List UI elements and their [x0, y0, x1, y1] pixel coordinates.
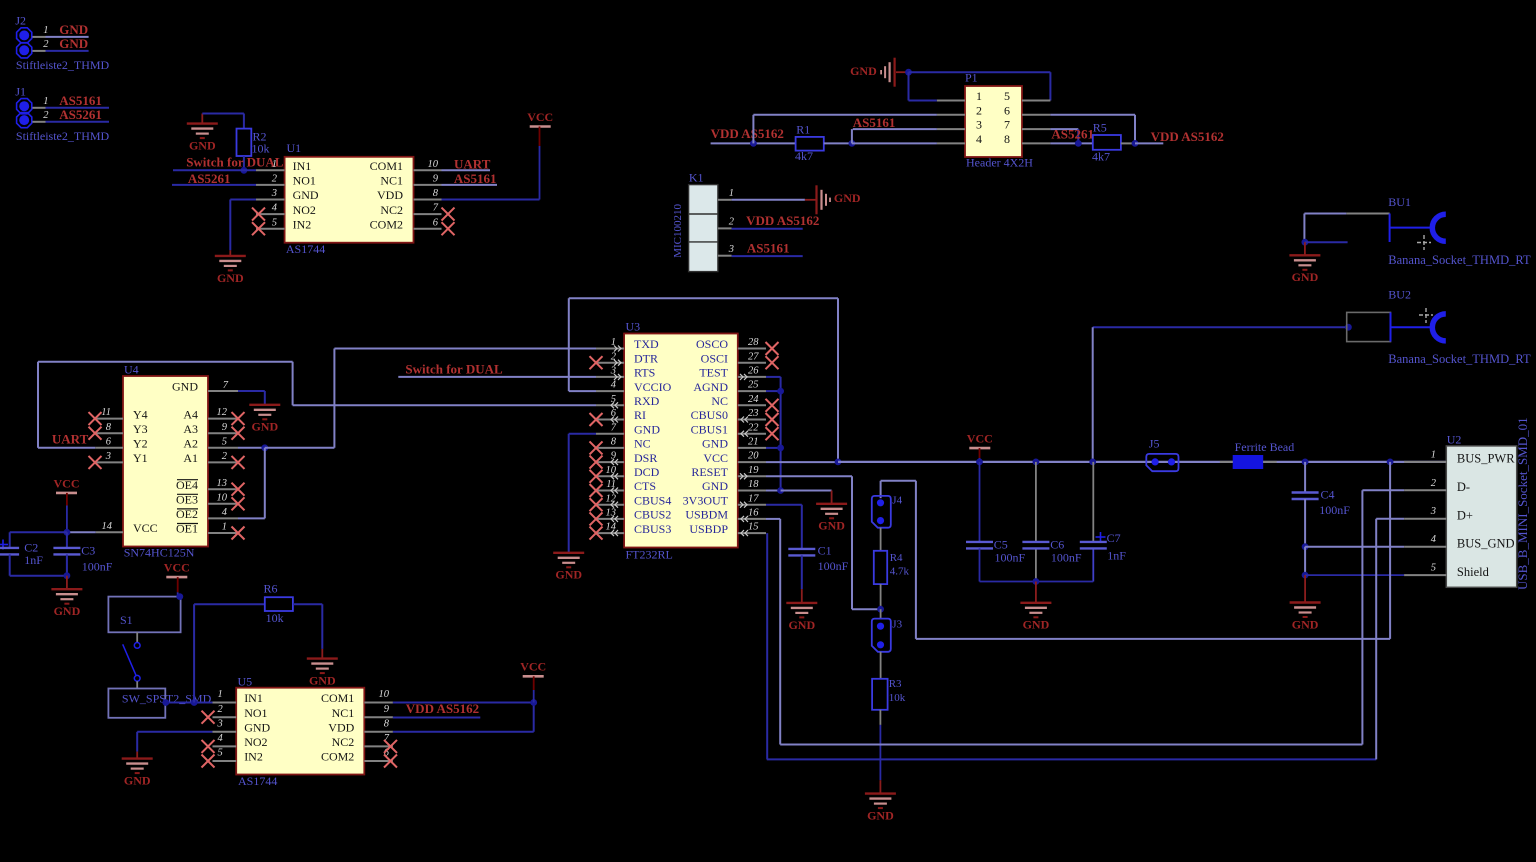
svg-text:4: 4	[272, 203, 278, 214]
wire A2 to OE2	[264, 448, 266, 519]
svg-text:NC1: NC1	[332, 706, 355, 720]
junction VCC/S1	[176, 593, 183, 600]
no-connect X	[89, 412, 102, 425]
svg-text:NC2: NC2	[332, 735, 355, 749]
svg-text:7: 7	[223, 380, 229, 391]
U3 pin 12	[596, 504, 624, 506]
svg-text:RTS: RTS	[634, 366, 655, 380]
svg-text:14: 14	[606, 522, 617, 533]
svg-text:13: 13	[606, 508, 617, 519]
U2 pin 1	[1404, 461, 1446, 463]
wire RESET to R4/J3	[852, 608, 881, 610]
svg-text:NC2: NC2	[380, 203, 403, 217]
wire R3 to gnd	[879, 725, 881, 780]
power VCC (U5)	[520, 660, 546, 677]
svg-text:RI: RI	[634, 408, 646, 422]
junction pin2 riser	[750, 140, 757, 147]
svg-text:8: 8	[384, 719, 390, 730]
net label underline VDD AS5162	[732, 228, 803, 230]
ground stem	[896, 71, 907, 73]
capacitor C3	[53, 548, 80, 555]
svg-text:BU2: BU2	[1388, 287, 1411, 301]
wire GND to R2	[202, 113, 244, 115]
svg-text:VCC: VCC	[520, 660, 546, 674]
svg-text:1: 1	[729, 188, 734, 199]
wire C2/C3 gnd	[10, 575, 67, 577]
K1 pin 3	[718, 255, 732, 257]
K1 pin 1	[718, 199, 732, 201]
svg-text:GND: GND	[251, 420, 278, 434]
svg-text:28: 28	[748, 337, 759, 348]
wire RESET drop	[851, 476, 853, 609]
P1 pin 5	[1022, 100, 1050, 102]
ground (above U1)	[187, 124, 218, 153]
wire riser to P1 pin2	[752, 115, 754, 144]
svg-text:BUS_PWR: BUS_PWR	[1457, 452, 1515, 466]
ground stem	[136, 752, 138, 759]
svg-text:12: 12	[217, 407, 228, 418]
svg-text:1: 1	[217, 689, 222, 700]
svg-text:11: 11	[101, 407, 111, 418]
wire USBDP down	[766, 533, 768, 759]
wire VCC20	[766, 461, 838, 463]
U2 pin 3	[1404, 518, 1446, 520]
U5 pin 2	[213, 716, 237, 718]
wire down to P1 pin1	[908, 72, 910, 100]
wire C3 bottom stem	[66, 554, 68, 575]
svg-text:4: 4	[611, 380, 617, 391]
ground (C1)	[786, 603, 817, 632]
net label underline GND	[46, 50, 89, 52]
svg-text:13: 13	[217, 478, 228, 489]
no-connect X	[232, 456, 245, 469]
capacitor C4	[1292, 493, 1319, 500]
wire 3V3OUT	[766, 504, 802, 506]
U4 pin 1	[208, 532, 238, 534]
K1 pin 2	[718, 227, 732, 229]
capacitor C2 plus sign	[0, 540, 8, 550]
svg-text:VDD AS5162: VDD AS5162	[1151, 129, 1224, 144]
svg-text:7: 7	[611, 422, 617, 433]
wire gnd drop	[568, 434, 570, 553]
svg-text:25: 25	[748, 380, 759, 391]
U4 pin 11	[95, 418, 123, 420]
svg-text:USBDP: USBDP	[689, 522, 728, 536]
no-connect X	[202, 740, 215, 753]
wire to C2	[10, 531, 67, 533]
ground (U4)	[249, 405, 280, 434]
svg-text:3: 3	[728, 244, 734, 255]
svg-text:GND: GND	[293, 188, 319, 202]
J1 pin 2	[32, 121, 45, 123]
U3 pin 26	[738, 376, 766, 378]
svg-text:GND: GND	[54, 604, 81, 618]
svg-text:9: 9	[222, 422, 228, 433]
U5 pin 6	[364, 760, 393, 762]
jumper J3	[872, 619, 891, 652]
svg-text:GND: GND	[189, 139, 216, 153]
no-connect X	[590, 498, 603, 511]
U1 pin 1	[256, 169, 285, 171]
svg-text:Y2: Y2	[133, 437, 148, 451]
svg-text:Banana_Socket_THMD_RT: Banana_Socket_THMD_RT	[1388, 352, 1531, 366]
svg-text:R1: R1	[796, 123, 810, 137]
svg-text:10: 10	[428, 159, 439, 170]
svg-text:C5: C5	[994, 537, 1008, 551]
wire Switch for DUAL to U1 IN1	[173, 169, 256, 171]
U1 pin 2	[256, 184, 285, 186]
J2 pin 2	[32, 50, 45, 52]
ground stem	[229, 250, 231, 256]
svg-text:4.7k: 4.7k	[890, 566, 910, 578]
svg-text:5: 5	[222, 436, 227, 447]
capacitor C7 stems	[1092, 462, 1094, 542]
wire to Shield	[1304, 547, 1306, 575]
ground (BU1)	[1289, 255, 1320, 284]
svg-text:GND: GND	[172, 380, 198, 394]
U3 pin 28	[738, 348, 766, 350]
power VCC (U1)	[527, 110, 553, 127]
svg-text:Shield: Shield	[1457, 565, 1490, 579]
svg-text:GND: GND	[555, 568, 582, 582]
junction BU2/C7	[1089, 459, 1096, 466]
wire TEST/AGND/GND chain	[780, 377, 782, 490]
IC U4 SN74HC125N	[123, 376, 208, 547]
svg-text:21: 21	[748, 437, 759, 448]
junction A2/OE2	[261, 444, 268, 451]
svg-text:IN1: IN1	[293, 159, 312, 173]
wire U4 gnd	[238, 390, 265, 392]
U1 pin 6	[414, 228, 442, 230]
svg-text:AS5261: AS5261	[188, 171, 231, 186]
wire OE2	[238, 517, 265, 519]
net label underline AS5161	[732, 255, 803, 257]
wire K1 pin1 to GND	[732, 199, 805, 201]
svg-text:D-: D-	[1457, 480, 1470, 494]
J3-R3 stem	[880, 652, 882, 679]
svg-text:VCC: VCC	[527, 110, 553, 124]
svg-text:3: 3	[271, 188, 277, 199]
svg-text:12: 12	[606, 493, 617, 504]
ground (below U1)	[215, 256, 246, 285]
wire pin6 drop	[1134, 115, 1136, 144]
wire VCC to BU2	[1093, 326, 1346, 328]
wire VDD AS5162	[1135, 142, 1163, 144]
svg-text:27: 27	[748, 351, 759, 362]
no-connect X	[252, 208, 265, 221]
svg-text:7: 7	[1004, 118, 1010, 132]
U1 pin 7	[414, 213, 442, 215]
no-connect X	[590, 512, 603, 525]
wire TXD riser	[333, 349, 335, 448]
wire USBDP bottom	[767, 758, 1376, 760]
connector J1	[17, 99, 32, 128]
svg-text:16: 16	[748, 508, 759, 519]
resistor R6	[265, 597, 293, 611]
svg-text:1: 1	[272, 159, 277, 170]
junction VCC/C3	[64, 529, 71, 536]
wire P1 pin8 AS5261	[1050, 142, 1092, 144]
P1 pin 4	[937, 142, 965, 144]
junction BU2	[1345, 324, 1352, 331]
switch SW_SPST2_SMD box	[108, 689, 165, 718]
power stem	[979, 448, 981, 458]
ground (C2 C3)	[51, 589, 82, 618]
svg-text:1: 1	[976, 89, 982, 103]
U4 pin 6	[95, 447, 123, 449]
svg-text:Switch for DUAL: Switch for DUAL	[405, 362, 503, 377]
svg-text:C1: C1	[818, 544, 832, 558]
svg-text:9: 9	[384, 704, 390, 715]
jumper J5	[1146, 454, 1178, 471]
resistor R3	[872, 679, 888, 710]
U3 pin 16	[738, 518, 766, 520]
power ground	[817, 185, 831, 214]
svg-text:GND: GND	[244, 721, 270, 735]
power VCC (S1)	[164, 561, 190, 578]
wire to U3 TXD	[334, 348, 598, 350]
junction R2/pin1	[241, 167, 248, 174]
wire C5 top stem	[979, 462, 981, 542]
capacitor C6 stems	[1035, 462, 1037, 542]
svg-text:CTS: CTS	[634, 479, 656, 493]
no-connect X	[766, 342, 779, 355]
J1 pin 1	[32, 107, 45, 109]
wire VDD AS5162 to R1	[711, 142, 796, 144]
svg-text:10: 10	[379, 689, 390, 700]
svg-text:4: 4	[222, 507, 228, 518]
U3 pin 23	[738, 419, 766, 421]
svg-text:6: 6	[1004, 103, 1010, 117]
svg-text:C4: C4	[1321, 488, 1335, 502]
wire loop bottom	[916, 638, 1390, 640]
U4 pin 4	[208, 517, 238, 519]
no-connect X	[89, 456, 102, 469]
U3 pin direction arrows	[614, 346, 621, 352]
power VCC (U4)	[54, 476, 80, 493]
wire riser to R6	[193, 604, 195, 702]
svg-text:GND: GND	[1292, 270, 1319, 284]
capacitor C7	[1080, 542, 1107, 549]
no-connect X	[766, 413, 779, 426]
wire AS5161 to P1 pin3	[853, 128, 937, 130]
ground (U3 pin18)	[816, 504, 847, 533]
wire VCC rail to U2 pin1	[838, 461, 1446, 463]
svg-text:23: 23	[748, 408, 759, 419]
wire VCC to pin14	[67, 531, 96, 533]
wire BUS_GND	[1305, 546, 1404, 548]
svg-text:U5: U5	[238, 675, 253, 689]
J3 stem	[880, 609, 882, 618]
svg-text:BUS_GND: BUS_GND	[1457, 537, 1515, 551]
svg-text:USBDM: USBDM	[685, 508, 728, 522]
U4 pin 12	[208, 418, 238, 420]
svg-text:J2: J2	[15, 13, 26, 27]
ground (U3)	[553, 553, 584, 582]
banana socket BU2	[1391, 308, 1446, 342]
U3 pin 15	[738, 532, 766, 534]
wire BU2 to VCC rail	[1092, 327, 1094, 462]
wire to D+	[1376, 518, 1404, 520]
svg-text:100nF: 100nF	[1051, 551, 1082, 565]
no-connect X	[384, 755, 397, 768]
svg-text:CBUS3: CBUS3	[634, 522, 671, 536]
svg-text:GND: GND	[309, 674, 336, 688]
svg-text:AGND: AGND	[693, 380, 728, 394]
svg-text:USB_B_MINI_Socket_SMD_01: USB_B_MINI_Socket_SMD_01	[1515, 417, 1530, 590]
junction AGND	[777, 388, 784, 395]
junction C6	[1033, 459, 1040, 466]
capacitor C5	[966, 542, 993, 549]
R4-J3 stem	[880, 584, 882, 609]
no-connect X	[384, 740, 397, 753]
svg-text:100nF: 100nF	[818, 559, 849, 573]
svg-text:1nF: 1nF	[24, 553, 43, 567]
junction Shield	[1302, 572, 1309, 579]
svg-text:20: 20	[748, 451, 759, 462]
junction BU1 gnd	[1302, 239, 1309, 246]
svg-text:NO1: NO1	[244, 706, 267, 720]
junction R6 riser	[191, 699, 198, 706]
svg-text:GND: GND	[850, 64, 877, 78]
wire 3V3OUT to C1	[801, 505, 803, 549]
svg-text:VDD AS5162: VDD AS5162	[406, 701, 479, 716]
svg-text:8: 8	[106, 422, 112, 433]
svg-text:4: 4	[1431, 534, 1437, 545]
svg-text:3: 3	[216, 719, 222, 730]
P1 pin 2	[937, 114, 965, 116]
svg-text:7: 7	[433, 203, 439, 214]
wire USBDM riser	[1361, 490, 1363, 744]
wire A2 to TXD riser	[265, 447, 335, 449]
svg-text:C7: C7	[1107, 531, 1121, 545]
svg-text:5: 5	[1431, 563, 1436, 574]
P1 pin 7	[1022, 128, 1050, 130]
power ground	[881, 58, 895, 87]
wire to R6	[194, 603, 265, 605]
wire U5 VDD	[393, 731, 534, 733]
no-connect X	[766, 399, 779, 412]
power stem	[533, 676, 535, 690]
svg-text:U4: U4	[124, 362, 139, 376]
svg-text:IN2: IN2	[244, 750, 263, 764]
junction C3 gnd	[64, 572, 71, 579]
junction VCC	[976, 459, 983, 466]
svg-text:VCC: VCC	[703, 451, 728, 465]
svg-text:TEST: TEST	[699, 366, 728, 380]
wire USBDP riser	[1375, 519, 1377, 760]
wire U5 gnd drop	[136, 732, 138, 752]
junction BUS_PWR loop	[1387, 459, 1394, 466]
wire C2 bottom stem	[9, 554, 11, 575]
wire Shield	[1305, 574, 1404, 576]
svg-text:3: 3	[1430, 506, 1436, 517]
svg-text:18: 18	[748, 479, 759, 490]
svg-text:VDD AS5162: VDD AS5162	[746, 213, 819, 228]
wire GND18 right	[781, 490, 832, 492]
U5 pin 3	[213, 731, 237, 733]
svg-text:GND: GND	[702, 479, 728, 493]
U3 pin 7	[596, 433, 624, 435]
svg-text:11: 11	[606, 479, 616, 490]
U1 pin 5	[256, 228, 285, 230]
U3 pin 18	[738, 490, 766, 492]
U3 pin 19	[738, 475, 766, 477]
svg-text:J4: J4	[892, 495, 902, 507]
svg-text:GND: GND	[217, 271, 244, 285]
svg-text:NO2: NO2	[244, 735, 267, 749]
wire C4 top stem	[1304, 462, 1306, 493]
svg-text:3: 3	[105, 451, 111, 462]
svg-text:DSR: DSR	[634, 451, 657, 465]
power VCC (rail)	[967, 432, 993, 449]
U4 pin 14	[96, 531, 123, 533]
U1 pin 9	[414, 184, 442, 186]
svg-text:A4: A4	[183, 407, 198, 421]
wire to D-	[1362, 489, 1404, 491]
svg-text:22: 22	[748, 422, 759, 433]
wire to P1 pin1	[909, 100, 937, 102]
wire C3 top stem	[66, 532, 68, 548]
no-connect X	[252, 222, 265, 235]
ground (U5)	[122, 759, 153, 788]
U4 pin 9	[208, 432, 238, 434]
capacitor C2	[0, 548, 19, 555]
svg-text:S1: S1	[120, 613, 133, 627]
U3 pin 13	[596, 518, 624, 520]
wire R6 right	[293, 603, 322, 605]
svg-text:1: 1	[1431, 449, 1436, 460]
svg-text:U2: U2	[1447, 433, 1462, 447]
U3 pin 1	[596, 348, 624, 350]
wire U4 loop top	[38, 361, 293, 363]
U4 pin 13	[208, 488, 238, 490]
U4 pin 8	[95, 432, 123, 434]
U4 pin 10	[208, 503, 238, 505]
wire R6 to gnd	[321, 604, 323, 649]
resistor R2	[237, 129, 252, 156]
U1 pin 10	[414, 169, 442, 171]
U4 pin 7	[208, 390, 238, 392]
svg-text:5: 5	[1004, 89, 1010, 103]
junction VCC/U5	[530, 699, 537, 706]
svg-text:GND: GND	[124, 774, 151, 788]
junction R5/pin6	[1132, 140, 1139, 147]
svg-text:2: 2	[217, 704, 223, 715]
U3 pin 14	[596, 532, 624, 534]
svg-text:4: 4	[217, 733, 223, 744]
svg-text:10k: 10k	[889, 692, 906, 704]
ferrite pins	[1220, 461, 1233, 463]
R5 right pin	[1121, 142, 1135, 144]
junction R1/AS5161	[849, 140, 856, 147]
svg-text:AS1744: AS1744	[238, 774, 277, 788]
ground stem	[321, 649, 323, 659]
svg-text:COM2: COM2	[321, 750, 354, 764]
resistor R1	[796, 137, 824, 151]
U4 pin 2	[208, 461, 238, 463]
resistor R4	[874, 551, 887, 584]
svg-text:GND: GND	[1023, 618, 1050, 632]
svg-text:R3: R3	[889, 678, 902, 690]
junction GND21	[777, 445, 784, 452]
ground stem	[1304, 575, 1306, 602]
P1 pin 3	[937, 128, 965, 130]
BU1 pin	[1346, 213, 1389, 215]
svg-text:C3: C3	[81, 543, 95, 557]
svg-text:NC: NC	[711, 394, 728, 408]
svg-text:OSCI: OSCI	[701, 351, 728, 365]
